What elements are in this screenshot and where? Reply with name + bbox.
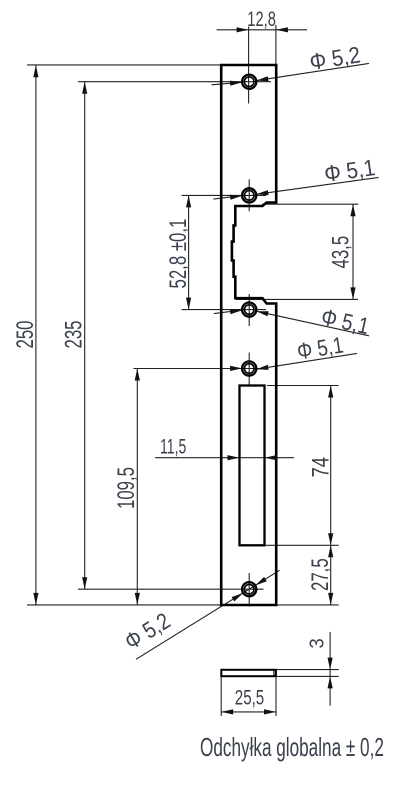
label 52,8 plus-minus 0,1 [165, 219, 192, 289]
dim line 235 [84, 82, 86, 590]
hole H5 [242, 582, 256, 596]
svg-text:3: 3 [307, 638, 329, 648]
svg-text:25,5: 25,5 [235, 685, 264, 709]
dim 250 arrows [33, 65, 38, 605]
svg-text:52,8 ±0,1: 52,8 ±0,1 [165, 219, 192, 289]
svg-text:250: 250 [12, 320, 39, 348]
extension line slot bottom [265, 544, 339, 546]
slot rectangle [240, 386, 265, 546]
extension line bar right end [275, 677, 277, 716]
svg-text:Odchyłka globalna ± 0,2: Odchyłka globalna ± 0,2 [200, 732, 384, 762]
hole H1 [242, 75, 256, 89]
plate outline with latch cutout [221, 65, 276, 605]
extension/centerline hole H2 [182, 194, 266, 196]
note odchylka globalna [200, 732, 384, 762]
centerline hole H4 vertical [248, 353, 250, 385]
label 3 [307, 638, 329, 648]
extension/centerline hole H1 [78, 81, 271, 83]
extension line plate bottom left [27, 604, 220, 606]
svg-text:Φ 5,2: Φ 5,2 [308, 41, 362, 75]
extension line 12,8 hole centerline [248, 27, 250, 104]
centerline hole H3 vertical [248, 294, 250, 326]
dim 11,5 arrows [228, 455, 277, 460]
leader line hole H3 left tail [214, 310, 242, 314]
hole H3 [242, 303, 256, 317]
leader line hole H4 right [256, 353, 357, 369]
dim 52,8 arrows [186, 195, 191, 309]
hole leader arrows H3 [230, 309, 269, 316]
label diameter 5,1 hole H3 [319, 304, 372, 340]
dim 43,5 arrows [350, 204, 355, 299]
label 74 [307, 457, 334, 478]
svg-text:43,5: 43,5 [328, 236, 355, 269]
hole H4 [242, 361, 256, 375]
svg-text:11,5: 11,5 [160, 435, 186, 458]
hole H2 [242, 188, 256, 202]
dim 27,5 arrows [328, 545, 333, 605]
extension line plate top left [27, 64, 220, 66]
extension line bar left end [220, 677, 222, 716]
dim 109,5 arrows [135, 369, 140, 605]
leader line hole H5 diagonal [136, 570, 280, 659]
extension line slot top [267, 385, 339, 387]
dim 25,5 arrows [221, 709, 276, 714]
hole leader arrows H1 [230, 76, 269, 86]
centerline hole H2 vertical [248, 179, 250, 211]
svg-text:109,5: 109,5 [113, 467, 140, 509]
extension/centerline hole H4 [134, 368, 267, 370]
label 109,5 [113, 467, 140, 509]
extension line cutout bottom [236, 298, 358, 300]
leader line hole H3 right [256, 311, 369, 336]
label diameter 5,2 top [308, 41, 362, 75]
label diameter 5,2 bottom [120, 608, 175, 655]
dim line 25,5 [221, 711, 276, 713]
label 250 [12, 320, 39, 348]
leader line hole H1 left tail [212, 82, 243, 85]
dim line 3 vertical [329, 632, 331, 706]
extension line cutout top [262, 203, 358, 205]
dim 235 arrows [82, 82, 87, 590]
svg-text:Φ 5,1: Φ 5,1 [295, 333, 345, 365]
dim line 250 [35, 65, 37, 605]
side view bar [221, 670, 276, 676]
svg-text:27,5: 27,5 [307, 558, 334, 591]
dim line 74 and 27,5 [330, 386, 332, 605]
dim line 11,5 [155, 457, 294, 459]
svg-text:235: 235 [61, 320, 88, 348]
label 11,5 [160, 435, 186, 458]
label 12,8 [247, 7, 276, 30]
extension line 12,8 plate right [275, 25, 277, 64]
centerline hole H5 vertical [248, 573, 250, 607]
hole leader arrows H4 [230, 365, 269, 371]
leader line hole H2 left tail [213, 196, 242, 200]
leader line hole H2 right [256, 177, 378, 194]
label diameter 5,1 hole H4 [295, 333, 345, 365]
dim 3 arrows [328, 658, 333, 689]
label diameter 5,1 hole H2 [323, 154, 377, 187]
label 235 [61, 320, 88, 348]
dim line 12,8 [217, 29, 307, 31]
svg-text:Φ 5,2: Φ 5,2 [120, 608, 175, 655]
extension/centerline hole H3 [182, 309, 266, 311]
dim 74 arrows [328, 386, 333, 546]
extension/centerline hole H5 [78, 588, 264, 590]
label 43,5 [328, 236, 355, 269]
dim 12,8 arrows [237, 27, 288, 32]
svg-text:12,8: 12,8 [247, 7, 276, 30]
label 27,5 [307, 558, 334, 591]
svg-text:74: 74 [307, 457, 334, 478]
label 25,5 [235, 685, 264, 709]
dim line 52,8 [188, 195, 190, 309]
svg-text:Φ 5,1: Φ 5,1 [323, 154, 377, 187]
hole leader arrows H5 [232, 577, 267, 602]
dim line 109,5 [136, 369, 138, 605]
dim line 43,5 [352, 204, 354, 299]
extension line bar bottom [277, 675, 339, 677]
extension line bar top [277, 669, 339, 671]
hole leader arrows H2 [230, 190, 269, 200]
leader line hole H1 right [256, 63, 369, 80]
extension line plate bottom right [277, 604, 339, 606]
